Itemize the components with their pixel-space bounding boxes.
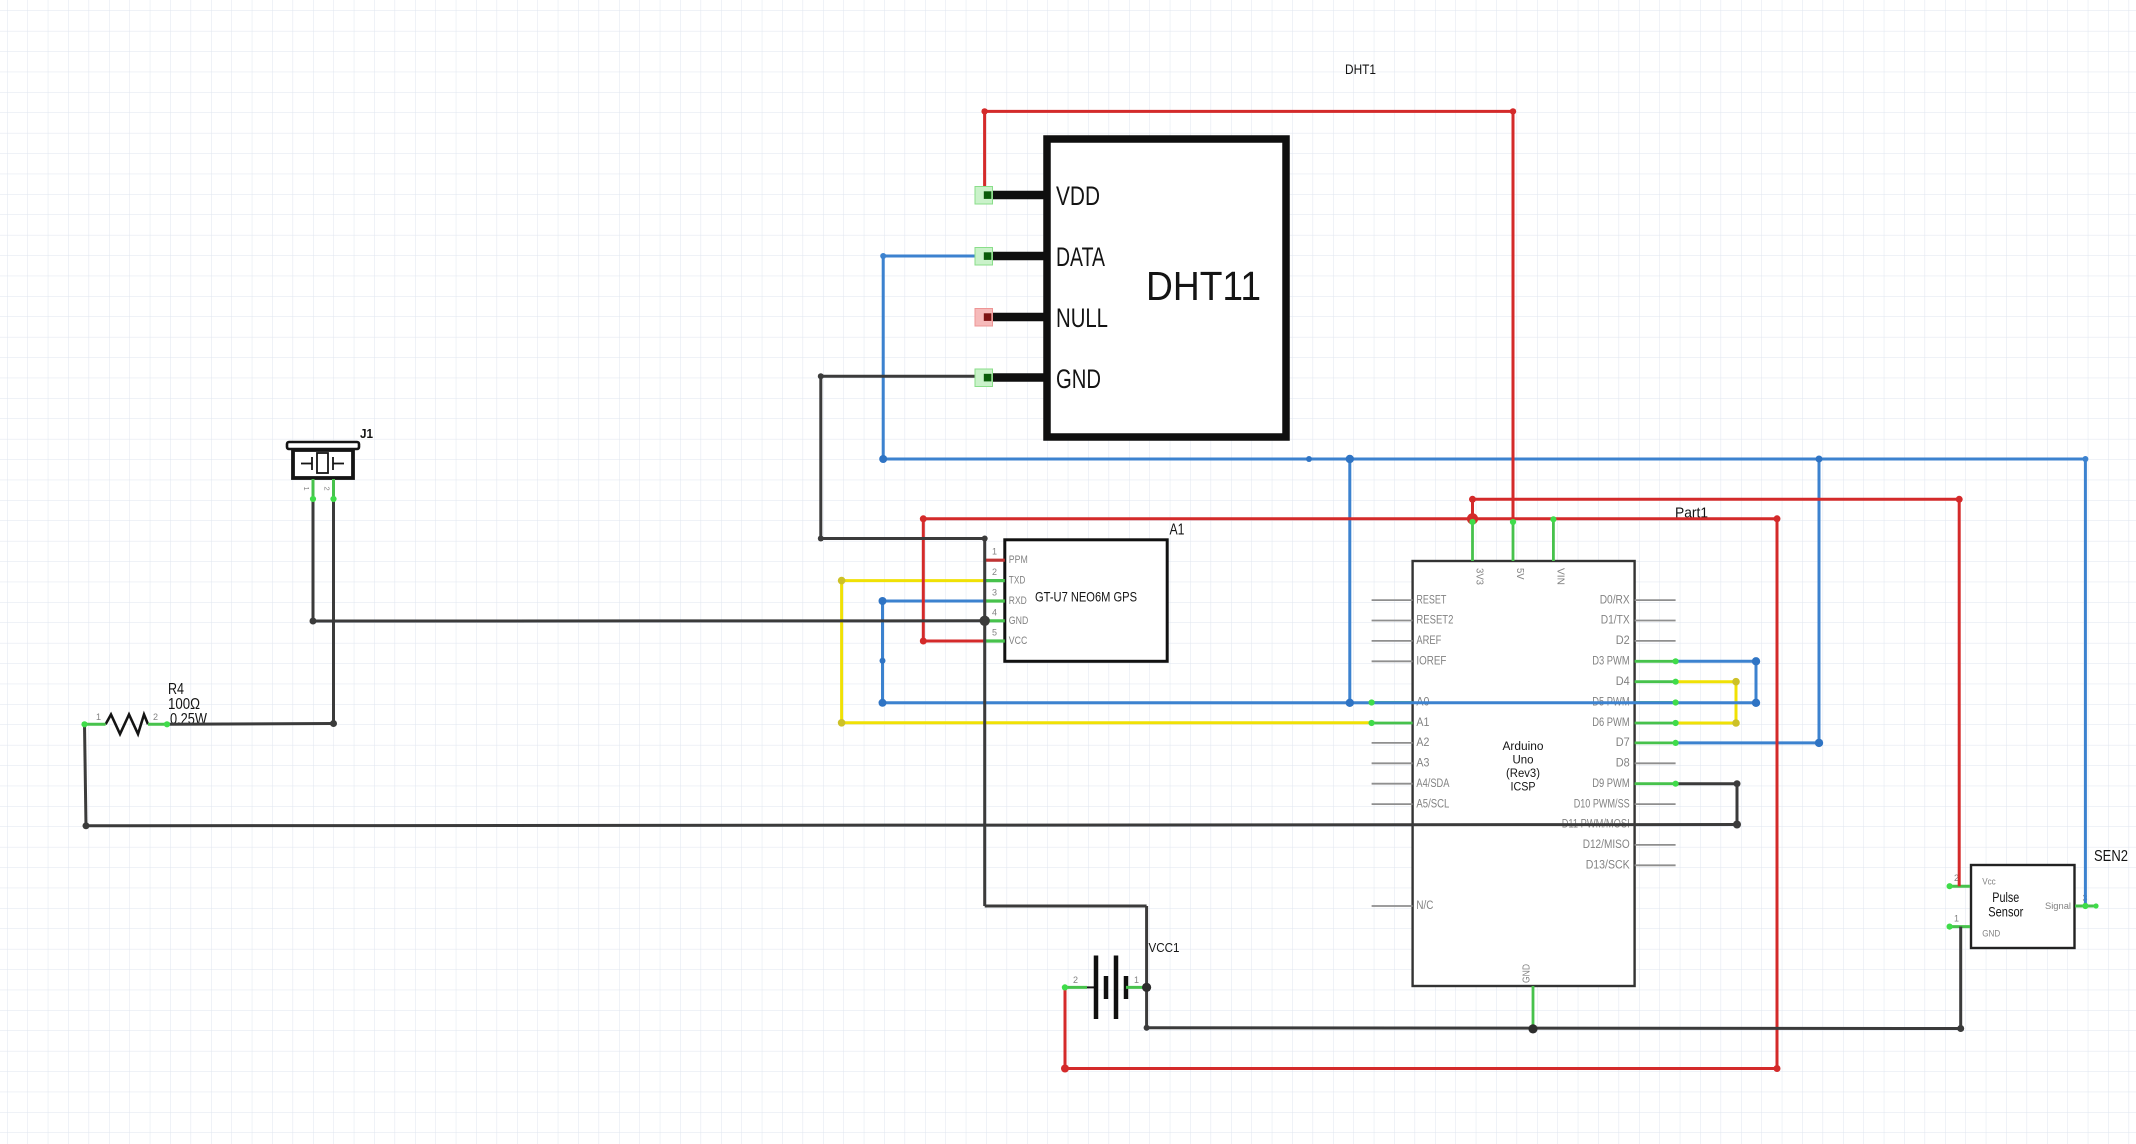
battery VCC1 body (1087, 986, 1096, 988)
svg-text:Pulse: Pulse (1992, 890, 2019, 905)
Part1 pin IOREF stub (1372, 660, 1413, 662)
wire red bypass horizontal (1473, 498, 1960, 501)
wire blue to Arduino A0 / D5 (883, 701, 1757, 704)
wire dark GND to battery plus horizontal (985, 905, 1147, 908)
DHT1 pin stub VDD (989, 191, 1047, 200)
Part1 pin D12/MISO stub (1635, 844, 1676, 846)
Part1 pin A1 stub (1372, 722, 1413, 725)
DHT1 pin stub DATA (989, 252, 1047, 261)
A1 pin 1 PPM stub (985, 559, 1005, 562)
SEN2 pin 3 Signal stub (2075, 905, 2096, 908)
svg-text:2: 2 (992, 567, 997, 577)
VCC1 pin 2 stub (1065, 986, 1087, 989)
wire yellow D4 right (1676, 680, 1736, 683)
svg-text:Vcc: Vcc (1982, 877, 1996, 887)
wire dark R4 to Arduino D9 long horizontal (86, 825, 1737, 826)
Part1 pin A2 stub (1372, 742, 1413, 744)
R4 pin 1 stub (85, 723, 106, 726)
wire yellow to Arduino A1 (842, 721, 1372, 724)
Part1 pin D13/SCK stub (1635, 864, 1676, 866)
SEN2 pin 2 Vcc stub (1950, 885, 1970, 888)
yellow waypoint dots (838, 577, 846, 585)
svg-text:DATA: DATA (1056, 242, 1105, 272)
Part1 pin GND stub (bottom) (1532, 986, 1535, 1029)
Part1 pin A0 stub (1372, 701, 1413, 704)
wire blue GPS RXD left (883, 600, 985, 603)
svg-text:VCC1: VCC1 (1149, 940, 1180, 955)
svg-text:A1: A1 (1170, 522, 1185, 539)
Part1 pin AREF stub (1372, 640, 1413, 642)
svg-text:RESET2: RESET2 (1416, 613, 1453, 627)
svg-text:GND: GND (1056, 364, 1101, 394)
svg-text:(Rev3): (Rev3) (1506, 766, 1540, 780)
svg-text:1: 1 (992, 547, 997, 557)
svg-text:Sensor: Sensor (1988, 904, 2023, 919)
wire dark SEN2 GND vertical (1959, 927, 1962, 1029)
svg-text:1: 1 (1134, 975, 1139, 985)
svg-text:3: 3 (992, 587, 997, 597)
wire yellow D6 left (1676, 722, 1736, 725)
svg-text:A4/SDA: A4/SDA (1416, 776, 1450, 790)
A1 pin 3 RXD stub (985, 599, 1005, 602)
svg-text:2: 2 (323, 487, 332, 491)
J1 pin 2 stub (332, 479, 335, 499)
svg-text:A3: A3 (1416, 756, 1429, 770)
wire red to SEN2 Vcc vertical (1958, 499, 1961, 886)
svg-text:A5/SCL: A5/SCL (1416, 796, 1449, 810)
svg-text:DHT11: DHT11 (1146, 263, 1261, 309)
svg-text:GND: GND (1522, 964, 1533, 983)
svg-text:1: 1 (96, 712, 101, 722)
wire dark R4 pin1 vertical (85, 724, 87, 826)
Part1 pin D5 PWM stub (1635, 701, 1676, 704)
Part1 pin D7 stub (1635, 742, 1676, 745)
svg-text:D13/SCK: D13/SCK (1586, 858, 1631, 872)
Part1 pin D6 PWM stub (1635, 722, 1676, 725)
svg-text:D4: D4 (1616, 674, 1630, 688)
wire red top horizontal (985, 110, 1513, 113)
svg-text:IOREF: IOREF (1416, 654, 1446, 668)
wire dark D9 vertical (1736, 784, 1739, 825)
DHT1 pad VDD (975, 187, 993, 205)
Part1 pin D10 PWM/SS stub (1635, 803, 1676, 805)
Part1 pin 3V3 stub (1471, 522, 1474, 561)
DHT1 pin stub GND (989, 373, 1047, 382)
wire blue bus to SEN2 Signal vertical (2084, 459, 2087, 906)
svg-text:GND: GND (1009, 615, 1029, 627)
wire red battery minus vertical (1064, 987, 1067, 1068)
Part1 pin N/C stub (1372, 905, 1413, 907)
wire red DHT VDD up (983, 111, 986, 194)
DHT1 pin stub NULL (989, 313, 1047, 322)
wire red GPS VCC horizontal (923, 640, 984, 643)
svg-text:VIN: VIN (1554, 568, 1565, 585)
wire dark J1 pin2 vertical (332, 499, 335, 724)
wire red down to Arduino 5V (1512, 111, 1515, 522)
svg-text:5V: 5V (1514, 568, 1525, 580)
Part1 pin RESET2 stub (1372, 620, 1413, 622)
dark junction dot GPS GND (big) (980, 616, 990, 626)
Part1 pin D3 PWM stub (1635, 660, 1676, 663)
wire dark bottom GND bus (1147, 1026, 1961, 1030)
wire blue DHT DATA left (883, 255, 975, 258)
wire yellow GPS TXD to corner (842, 579, 985, 582)
svg-text:Arduino: Arduino (1503, 739, 1544, 753)
wire yellow vertical (840, 581, 843, 723)
svg-text:ICSP: ICSP (1511, 780, 1536, 794)
wire dark DHT GND left (821, 375, 975, 378)
svg-text:J1: J1 (360, 427, 373, 441)
svg-text:1: 1 (302, 487, 311, 491)
wire yellow D4-D6 vertical (1735, 682, 1738, 723)
Part1 pin D4 stub (1635, 680, 1676, 683)
wire dark D9 right (1676, 782, 1737, 785)
svg-text:DHT1: DHT1 (1345, 62, 1376, 77)
DHT1 pad NULL (975, 309, 993, 327)
Part1 pin A4/SDA stub (1372, 783, 1413, 785)
connector J1 body (287, 442, 359, 449)
green endpoint dots (310, 496, 316, 502)
svg-text:VCC: VCC (1009, 635, 1028, 647)
dark junction dots (818, 373, 824, 379)
Part1 pin D2 stub (1635, 640, 1676, 642)
svg-text:A1: A1 (1416, 715, 1429, 729)
wire dark R4 pin2 to J1 pin2 (167, 722, 334, 726)
wire blue DATA vertical (882, 256, 885, 459)
wire dark DHT GND horizontal (821, 537, 985, 540)
Part1 pin D11 PWM/MOSI stub (1635, 824, 1676, 826)
svg-text:RESET: RESET (1416, 592, 1446, 606)
svg-text:5: 5 (992, 628, 997, 638)
wire blue D3 right (1676, 660, 1756, 663)
wire blue bus drop to A0 row (1348, 459, 1351, 703)
Part1 pin D1/TX stub (1635, 620, 1676, 622)
Part1 pin D9 PWM stub (1635, 782, 1676, 785)
sensor SEN2 Pulse Sensor body (1971, 865, 2075, 948)
svg-text:D8: D8 (1616, 756, 1630, 770)
wire red 3V3 link vertical (1471, 499, 1474, 519)
svg-text:A2: A2 (1416, 735, 1429, 749)
svg-text:N/C: N/C (1416, 898, 1433, 912)
svg-text:Uno: Uno (1513, 753, 1534, 767)
J1 pin 1 stub (312, 479, 315, 499)
Part1 pin A5/SCL stub (1372, 803, 1413, 805)
svg-text:NULL: NULL (1056, 303, 1108, 333)
red junction dot 3V3 (big) (1467, 513, 1478, 524)
svg-text:GND: GND (1982, 929, 2000, 939)
svg-text:D1/TX: D1/TX (1601, 613, 1630, 627)
wire dark J1 pin1 to GPS GND (313, 619, 985, 622)
Part1 pin D0/RX stub (1635, 599, 1676, 601)
A1 pin 4 GND stub (985, 619, 1005, 622)
VCC1 pin 1 stub (1126, 986, 1147, 989)
wire blue D7 right (1676, 741, 1819, 744)
A1 pin 2 TXD stub (985, 579, 1005, 582)
resistor R4 100ohm 0.25W (106, 715, 148, 735)
svg-text:D7: D7 (1616, 735, 1630, 749)
svg-text:2: 2 (153, 712, 158, 722)
svg-text:1: 1 (1954, 914, 1959, 924)
Part1 pin RESET stub (1372, 599, 1413, 601)
wire blue D7 vertical to bus (1818, 459, 1821, 743)
wire dark DHT GND vertical (819, 376, 822, 538)
Part1 pin A3 stub (1372, 762, 1413, 764)
module A1 GT-U7 NEO6M GPS body (1005, 540, 1167, 662)
wire dark GND vertical along GPS pins (983, 539, 986, 907)
svg-text:D3 PWM: D3 PWM (1592, 654, 1630, 668)
DHT1 pad DATA (975, 248, 993, 266)
dark junction dot battery plus (1142, 983, 1151, 992)
R4 pin 2 stub (148, 723, 167, 726)
svg-text:D6 PWM: D6 PWM (1592, 715, 1630, 729)
wire red VIN rail down right (1776, 519, 1779, 1069)
wire blue RXD vertical (881, 601, 884, 703)
svg-text:D9 PWM: D9 PWM (1592, 776, 1630, 790)
blue junction dots (880, 253, 886, 259)
Part1 pin VIN stub (1552, 519, 1555, 561)
module Part1 Arduino Uno Rev3 body (1413, 561, 1635, 986)
svg-text:TXD: TXD (1009, 575, 1026, 587)
wire blue D3-D5 vertical (1755, 661, 1758, 703)
svg-text:D12/MISO: D12/MISO (1583, 837, 1630, 851)
svg-text:PPM: PPM (1009, 554, 1028, 566)
svg-text:RXD: RXD (1009, 595, 1027, 607)
Part1 pin 5V stub (1512, 522, 1515, 561)
svg-text:3V3: 3V3 (1474, 568, 1485, 585)
svg-text:D10 PWM/SS: D10 PWM/SS (1574, 796, 1630, 810)
svg-text:SEN2: SEN2 (2094, 848, 2128, 865)
svg-text:Signal: Signal (2045, 901, 2071, 911)
DHT1 pad GND (975, 369, 993, 387)
wire dark battery plus vertical (1145, 906, 1148, 1028)
wire red main horizontal 5V rail (923, 517, 1777, 520)
wire red bottom horizontal (1065, 1067, 1777, 1070)
A1 pin 5 VCC stub (985, 639, 1005, 642)
dark junction dot Arduino GND (big) (1528, 1024, 1537, 1033)
wire dark J1 pin1 vertical (312, 499, 315, 621)
sensor DHT1 DHT11 body (1047, 139, 1286, 437)
wire red GPS VCC vertical (922, 519, 925, 641)
Part1 pin D8 stub (1635, 762, 1676, 764)
svg-text:D2: D2 (1616, 633, 1630, 647)
svg-text:2: 2 (1073, 975, 1078, 985)
wire blue bus horizontal (883, 458, 2085, 461)
svg-text:AREF: AREF (1416, 633, 1441, 647)
svg-text:4: 4 (992, 607, 997, 617)
J1 inner symbol (301, 463, 312, 465)
svg-text:D0/RX: D0/RX (1600, 592, 1630, 606)
svg-text:GT-U7 NEO6M GPS: GT-U7 NEO6M GPS (1035, 589, 1137, 605)
red junction dots (981, 108, 987, 114)
svg-text:VDD: VDD (1056, 181, 1100, 211)
SEN2 pin 1 GND stub (1950, 925, 1970, 928)
